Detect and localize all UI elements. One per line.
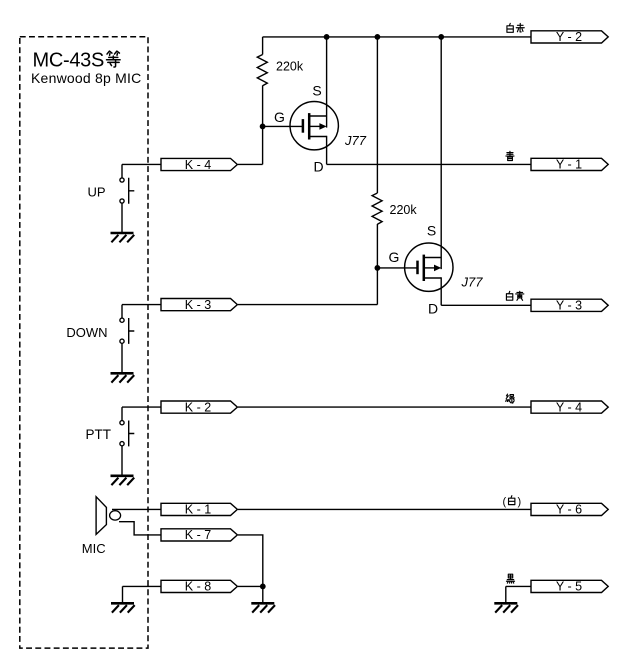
svg-text:K - 7: K - 7: [185, 528, 211, 542]
svg-text:PTT: PTT: [86, 427, 112, 442]
svg-text:MIC: MIC: [82, 541, 106, 556]
svg-text:Y - 2: Y - 2: [556, 30, 582, 44]
svg-text:Y - 6: Y - 6: [556, 503, 582, 517]
svg-text:K - 4: K - 4: [185, 158, 211, 172]
svg-text:S: S: [312, 83, 321, 99]
svg-text:): ): [518, 496, 522, 508]
svg-text:220k: 220k: [276, 60, 304, 74]
svg-text:G: G: [389, 249, 400, 265]
svg-text:J77: J77: [344, 133, 367, 148]
svg-text:Y - 5: Y - 5: [556, 580, 582, 594]
svg-text:Y - 4: Y - 4: [556, 400, 582, 414]
svg-text:K - 1: K - 1: [185, 503, 211, 517]
svg-text:MC-43S: MC-43S: [33, 50, 105, 72]
svg-text:DOWN: DOWN: [66, 325, 107, 340]
svg-text:D: D: [313, 159, 323, 175]
svg-text:Kenwood 8p MIC: Kenwood 8p MIC: [31, 70, 141, 86]
svg-text:Y - 1: Y - 1: [556, 158, 582, 172]
svg-text:D: D: [428, 301, 438, 317]
svg-text:K - 8: K - 8: [185, 580, 211, 594]
svg-text:J77: J77: [461, 275, 484, 290]
svg-text:(: (: [503, 496, 507, 508]
svg-text:220k: 220k: [390, 203, 418, 217]
svg-text:S: S: [427, 223, 436, 239]
svg-text:K - 3: K - 3: [185, 298, 211, 312]
svg-text:UP: UP: [87, 185, 105, 200]
svg-text:Y - 3: Y - 3: [556, 299, 582, 313]
svg-text:G: G: [274, 109, 285, 125]
svg-text:K - 2: K - 2: [185, 400, 211, 414]
